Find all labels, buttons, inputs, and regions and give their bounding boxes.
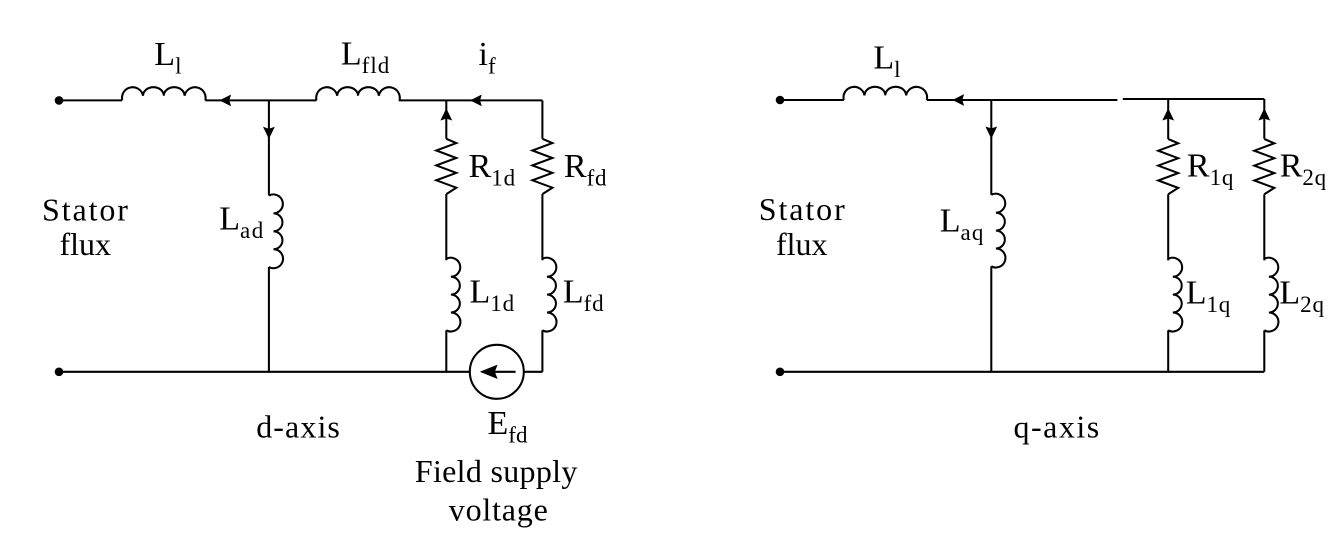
- arrowhead: up arrow on R_1d branch: [440, 108, 452, 120]
- svg-text:Ll: Ll: [154, 36, 181, 79]
- wire: bottom rail (q): [780, 371, 1264, 373]
- arrowhead: up arrow on R_2q branch: [1258, 108, 1270, 120]
- wire: R_1d to L_1d: [445, 194, 447, 260]
- svg-text:Field supply: Field supply: [415, 453, 578, 489]
- node dot: stator terminal bottom: [55, 368, 64, 377]
- arrowhead: flux arrow down L_ad branch: [263, 127, 275, 139]
- svg-text:L2q: L2q: [1279, 274, 1324, 317]
- svg-text:voltage: voltage: [449, 491, 549, 527]
- resistor R_2q: [1254, 139, 1274, 194]
- wire: L_l to node (q): [927, 99, 992, 101]
- wire: node to wire gap: [991, 99, 1117, 101]
- arrowhead: up arrow on R_1q branch: [1162, 108, 1174, 120]
- wire: L_aq branch upper segment: [990, 100, 992, 195]
- inductor L_1d (vertical coil): [446, 258, 460, 332]
- wire: bottom rail: [59, 371, 470, 373]
- svg-text:Lfld: Lfld: [341, 36, 390, 79]
- svg-text:flux: flux: [60, 226, 112, 262]
- svg-text:Efd: Efd: [488, 405, 528, 448]
- wire: R_1q to L_1q: [1167, 194, 1169, 260]
- inductor L_fd (vertical coil): [542, 258, 556, 332]
- svg-text:R1q: R1q: [1187, 148, 1234, 191]
- svg-text:Lfd: Lfd: [563, 274, 605, 317]
- svg-text:Rfd: Rfd: [564, 148, 607, 191]
- wire: R_1d branch top lead: [445, 100, 447, 138]
- wire: L_aq branch lower segment: [990, 266, 992, 372]
- inductor L_l (q-axis): [843, 87, 927, 100]
- wire: L_1q to bottom rail: [1167, 330, 1169, 372]
- arrowhead: i_f current arrow: [470, 95, 482, 107]
- wire: L_1d to bottom rail: [445, 330, 447, 372]
- arrowhead: current toward stator: [219, 95, 231, 107]
- inductor L_1q (vertical coil): [1168, 258, 1182, 332]
- wire: top-left lead: [59, 99, 122, 101]
- inductor L_ad (vertical coil): [269, 194, 283, 268]
- node dot: q stator terminal top: [776, 96, 785, 105]
- source E_fd circle: [470, 345, 524, 399]
- svg-text:L1q: L1q: [1186, 274, 1231, 317]
- wire: node to L_fld: [269, 99, 317, 101]
- inductor L_aq (vertical coil): [991, 194, 1005, 268]
- svg-text:L1d: L1d: [470, 274, 515, 317]
- arrowhead: current toward stator (q): [952, 94, 964, 106]
- wire: R_fd branch top lead: [541, 100, 543, 138]
- svg-text:d-axis: d-axis: [256, 408, 341, 444]
- svg-text:Ll: Ll: [873, 39, 900, 82]
- arrowhead: flux arrow down L_aq branch: [985, 127, 997, 139]
- resistor R_1d: [436, 139, 456, 194]
- svg-text:R1d: R1d: [469, 148, 516, 191]
- wire: top-left lead (q): [780, 99, 844, 101]
- svg-text:Stator: Stator: [759, 191, 847, 227]
- inductor L_2q (vertical coil): [1264, 258, 1278, 332]
- inductor L_fld: [316, 87, 400, 100]
- wire: R_2q to L_2q: [1263, 194, 1265, 260]
- wire: L_ad branch upper segment: [268, 100, 270, 195]
- wire: R_1q branch top lead: [1167, 100, 1169, 139]
- svg-text:Laq: Laq: [940, 202, 985, 245]
- resistor R_1q: [1158, 139, 1178, 194]
- node dot: stator terminal top: [55, 96, 64, 105]
- svg-text:R2q: R2q: [1280, 148, 1327, 191]
- node dot: q stator terminal bottom: [776, 368, 785, 377]
- svg-text:q-axis: q-axis: [1014, 409, 1101, 445]
- svg-text:flux: flux: [776, 226, 828, 262]
- wire: L_2q to bottom rail: [1263, 330, 1265, 372]
- wire: node R_1d to top-right corner: [446, 99, 542, 101]
- wire: R_fd to L_fd: [541, 194, 543, 260]
- inductor L_l (d-axis): [122, 87, 206, 100]
- wire: L_ad branch lower segment: [268, 267, 270, 372]
- wire: L_fd down to E_fd corner: [541, 330, 543, 372]
- svg-text:if: if: [479, 36, 496, 79]
- wire: gap to R_2q corner: [1123, 98, 1265, 100]
- wire: E_fd to right corner: [524, 371, 543, 373]
- wire: L_fld to node of R_1d branch: [399, 99, 447, 101]
- resistor R_fd: [532, 139, 552, 194]
- svg-text:Lad: Lad: [219, 201, 265, 244]
- wire: L_l to node: [205, 99, 269, 101]
- svg-text:Stator: Stator: [42, 191, 130, 227]
- wire: corner drop R_2q top: [1263, 99, 1265, 139]
- arrowhead: E_fd source arrow: [482, 371, 516, 373]
